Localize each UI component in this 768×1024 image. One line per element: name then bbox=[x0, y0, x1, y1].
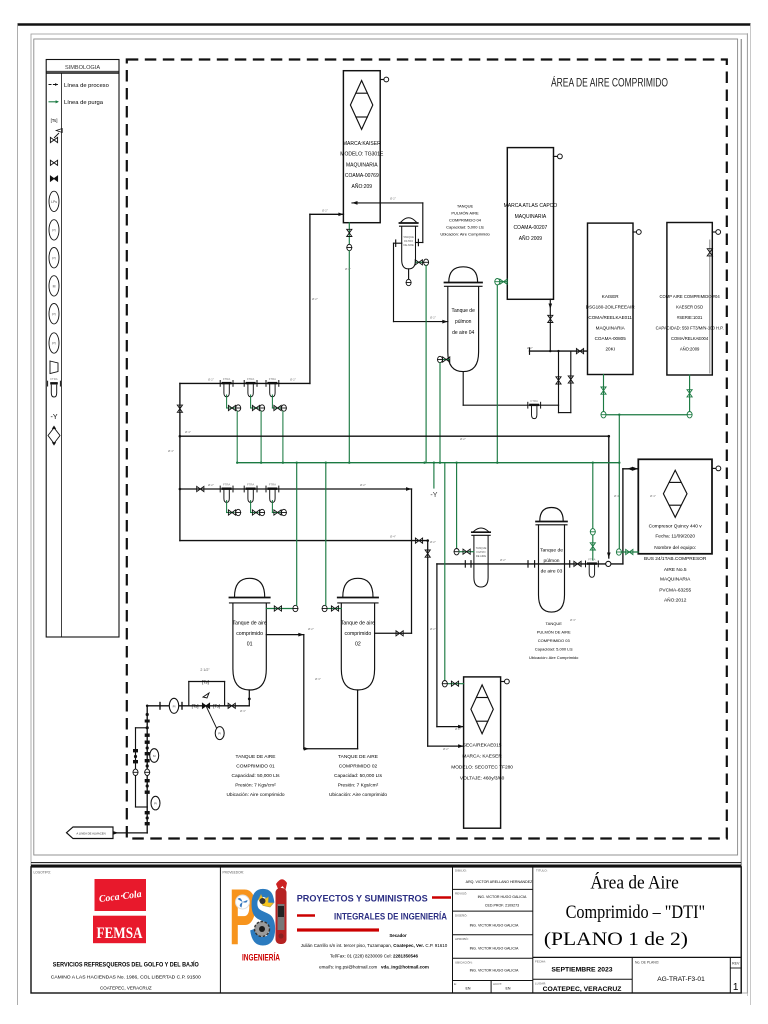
svg-text:Ubicación: Aire comprimido: Ubicación: Aire comprimido bbox=[226, 792, 284, 798]
svg-text:AÑO:2009: AÑO:2009 bbox=[680, 347, 700, 352]
process line 3 bbox=[180, 538, 429, 543]
svg-text:FILTRO: FILTRO bbox=[404, 239, 413, 243]
svg-text:MAQUINARIA: MAQUINARIA bbox=[660, 577, 691, 583]
svg-text:Ubicación: Aire Comprimido: Ubicación: Aire Comprimido bbox=[440, 232, 490, 237]
svg-text:DISEÑÓ:: DISEÑÓ: bbox=[455, 913, 468, 918]
svg-text:LUGAR:: LUGAR: bbox=[535, 981, 546, 985]
filter tank bottom drain bbox=[406, 269, 411, 286]
svg-text:MAQUINARIA: MAQUINARIA bbox=[515, 214, 547, 220]
svg-text:EN: EN bbox=[466, 987, 471, 991]
svg-text:DSG180-2OILFREEAIR: DSG180-2OILFREEAIR bbox=[586, 305, 636, 310]
svg-text:TANQUE: TANQUE bbox=[403, 235, 414, 239]
filter on tank04 outlet bbox=[528, 399, 541, 419]
valve below dryer bbox=[347, 223, 352, 244]
svg-text:-Y: -Y bbox=[51, 414, 58, 421]
svg-text:ING. VICTOR HUGO GALICIA: ING. VICTOR HUGO GALICIA bbox=[470, 924, 519, 928]
svg-text:AG-TRAT-F3-01: AG-TRAT-F3-01 bbox=[657, 976, 705, 983]
svg-text:TITULO:: TITULO: bbox=[536, 869, 548, 873]
svg-text:ARQ. VICTOR ARELLANO HERNANDEZ: ARQ. VICTOR ARELLANO HERNANDEZ bbox=[466, 880, 533, 884]
svg-text:Capacidad: 5,000 Lts: Capacidad: 5,000 Lts bbox=[446, 225, 484, 230]
svg-text:VOLTAJE: 460y/3/60: VOLTAJE: 460y/3/60 bbox=[460, 776, 505, 782]
svg-text:CAMINO A LAS HACIENDAS No. 198: CAMINO A LAS HACIENDAS No. 1986, COL LIB… bbox=[51, 975, 202, 980]
PSI logo bbox=[229, 872, 287, 963]
svg-text:Ø 4": Ø 4" bbox=[390, 535, 396, 539]
svg-text:COMA/RELKAE004: COMA/RELKAE004 bbox=[671, 336, 709, 341]
compresor ATLAS COPCO box bbox=[504, 148, 558, 300]
nozzle kaiser dsg bbox=[633, 230, 641, 235]
svg-text:PI: PI bbox=[173, 704, 176, 708]
tank 02 bbox=[338, 578, 378, 690]
quincy purge bbox=[616, 549, 638, 555]
svg-text:Ø 4": Ø 4" bbox=[185, 430, 191, 434]
svg-text:UBICACIÓN:: UBICACIÓN: bbox=[455, 960, 473, 965]
svg-text:ACOT:: ACOT: bbox=[493, 982, 502, 986]
left riser bbox=[177, 383, 182, 540]
tanque pulmon de aire 04 bbox=[445, 267, 483, 372]
svg-text:TANQUE DE AIRE: TANQUE DE AIRE bbox=[236, 754, 276, 760]
svg-text:TANQUE: TANQUE bbox=[457, 204, 474, 209]
svg-text:FEMSA: FEMSA bbox=[97, 925, 144, 942]
svg-text:Ø 2": Ø 2" bbox=[208, 483, 214, 487]
svg-text:-Y: -Y bbox=[430, 492, 437, 499]
tank04 bottom outlet bbox=[463, 372, 558, 406]
svg-text:COATEPEC, VERACRUZ: COATEPEC, VERACRUZ bbox=[100, 986, 152, 991]
svg-text:20KI: 20KI bbox=[605, 347, 614, 352]
tanque 04 text block bbox=[440, 204, 490, 237]
nozzle secador bbox=[501, 679, 510, 684]
svg-text:COAMA-00769: COAMA-00769 bbox=[345, 173, 379, 179]
svg-text:MARCA:KAISER: MARCA:KAISER bbox=[343, 141, 381, 147]
svg-text:PI: PI bbox=[52, 342, 55, 346]
line1 drop to suction bbox=[607, 435, 611, 558]
svg-text:Ubicación: Aire Comprimido: Ubicación: Aire Comprimido bbox=[529, 655, 579, 660]
svg-text:púlmon: púlmon bbox=[543, 558, 559, 564]
wire outlet right to filter tank bbox=[352, 201, 423, 246]
legend symbols column bbox=[48, 118, 63, 446]
svg-text:Capacidad: 50,000 Lts: Capacidad: 50,000 Lts bbox=[334, 773, 383, 779]
svg-text:Tanque de: Tanque de bbox=[540, 548, 563, 554]
svg-text:KAISER: KAISER bbox=[602, 294, 620, 299]
atlas outlet down bbox=[548, 299, 553, 351]
svg-text:Julián Carrillo s/n int. terce: Julián Carrillo s/n int. tercer piso, Tu… bbox=[301, 943, 448, 948]
svg-text:MODELO: SECOTEC TF280: MODELO: SECOTEC TF280 bbox=[451, 765, 513, 771]
svg-text:PROYECTOS Y SUMINISTROS: PROYECTOS Y SUMINISTROS bbox=[297, 893, 428, 904]
svg-text:Área de Aire: Área de Aire bbox=[590, 871, 678, 893]
svg-text:ING. VICTOR HUGO GALICIA: ING. VICTOR HUGO GALICIA bbox=[470, 969, 519, 973]
svg-text:LPs: LPs bbox=[51, 200, 57, 204]
svg-text:Presión: 7 Kgs/cm²: Presión: 7 Kgs/cm² bbox=[235, 783, 276, 789]
svg-text:Ø 2": Ø 2" bbox=[312, 297, 318, 301]
svg-text:Ø 3": Ø 3" bbox=[570, 618, 576, 622]
svg-text:COAMA-00207: COAMA-00207 bbox=[513, 225, 547, 231]
svg-text:Ø 3": Ø 3" bbox=[315, 677, 321, 681]
svg-text:púlmon: púlmon bbox=[455, 319, 472, 325]
svg-text:S: S bbox=[249, 872, 277, 962]
svg-text:Ø 2": Ø 2" bbox=[460, 437, 466, 441]
SECADOR box bbox=[451, 677, 513, 828]
svg-text:Línea de proceso: Línea de proceso bbox=[64, 83, 109, 89]
svg-text:email's: ing.psi@hotmail.com: email's: ing.psi@hotmail.com vda_ing@hot… bbox=[319, 965, 429, 970]
names column bbox=[453, 869, 534, 994]
filter tank purge valve bbox=[415, 259, 428, 265]
svg-text:comprimido: comprimido bbox=[344, 631, 371, 637]
svg-text:E:: E: bbox=[454, 982, 457, 986]
svg-text:Ø 2": Ø 2" bbox=[500, 558, 506, 562]
svg-text:KAESER DSD: KAESER DSD bbox=[676, 305, 703, 310]
svg-text:REV: REV bbox=[732, 962, 740, 966]
svg-text:1: 1 bbox=[733, 982, 739, 993]
svg-text:Ø 4": Ø 4" bbox=[614, 494, 620, 498]
svg-text:MAQUINARIA: MAQUINARIA bbox=[596, 326, 626, 331]
tank02 text block bbox=[329, 754, 387, 798]
svg-text:de aire 04: de aire 04 bbox=[452, 330, 474, 336]
svg-text:AIRE No.5: AIRE No.5 bbox=[664, 567, 687, 573]
tanque 03 text block bbox=[529, 621, 579, 660]
svg-text:TANQUE: TANQUE bbox=[476, 546, 487, 550]
svg-text:Ø 2": Ø 2" bbox=[308, 627, 314, 631]
svg-text:ÁREA DE AIRE COMPRIMIDO: ÁREA DE AIRE COMPRIMIDO bbox=[551, 75, 668, 90]
svg-text:INTEGRALES DE INGENIERÍA: INTEGRALES DE INGENIERÍA bbox=[334, 911, 447, 922]
svg-text:INGENIERÍA: INGENIERÍA bbox=[242, 953, 280, 963]
svg-text:COAMA-00805: COAMA-00805 bbox=[595, 336, 627, 341]
svg-text:AÑO:2012: AÑO:2012 bbox=[664, 597, 687, 604]
svg-text:Presión: 7 Kgs/cm²: Presión: 7 Kgs/cm² bbox=[338, 783, 379, 789]
header to kaiser comp bbox=[530, 348, 588, 354]
tank02 purge inlet bbox=[322, 463, 341, 612]
purge drop from filter tank bbox=[425, 266, 427, 463]
purge -Y drop bbox=[430, 463, 437, 499]
secador purge inlet bbox=[442, 681, 463, 687]
svg-text:MARCA ATLAS CAPCO: MARCA ATLAS CAPCO bbox=[504, 203, 558, 209]
filter row 1 bbox=[180, 382, 310, 384]
svg-text:Capacidad: 5,000 Lts: Capacidad: 5,000 Lts bbox=[535, 647, 573, 652]
svg-text:FILTRO: FILTRO bbox=[476, 550, 485, 554]
kaeser dsd purge bbox=[687, 375, 692, 418]
svg-text:PULMÓN DE AIRE: PULMÓN DE AIRE bbox=[537, 630, 571, 635]
svg-text:MAQUINARIA: MAQUINARIA bbox=[346, 162, 378, 168]
svg-text:EN: EN bbox=[506, 987, 511, 991]
connection nozzle U1 bbox=[380, 77, 388, 82]
linea de purga bbox=[49, 101, 59, 103]
wire riser to filter row 1 bbox=[309, 214, 311, 383]
svg-text:Ø 2": Ø 2" bbox=[360, 483, 366, 487]
svg-text:Tel/Fax: 01 (228) 8230009 Cel:: Tel/Fax: 01 (228) 8230009 Cel: 228135054… bbox=[330, 954, 419, 959]
nozzle kaeser dsd bbox=[712, 230, 720, 235]
svg-text:Ø 2": Ø 2" bbox=[430, 627, 436, 631]
riser from tank04 line bbox=[556, 350, 561, 405]
svg-text:No. DE PLANO:: No. DE PLANO: bbox=[635, 961, 659, 965]
svg-text:CAPACIDAD: 550 FT3/M/N-100 H.P: CAPACIDAD: 550 FT3/M/N-100 H.P. bbox=[656, 326, 724, 331]
row2 filter drains bbox=[227, 501, 241, 516]
svg-text:PI: PI bbox=[52, 312, 55, 316]
svg-text:Tanque de aire: Tanque de aire bbox=[341, 621, 375, 627]
tank02 outlet bbox=[375, 489, 412, 636]
svg-text:COMPRIMIDO 01: COMPRIMIDO 01 bbox=[236, 764, 275, 770]
svg-text:01: 01 bbox=[247, 642, 253, 648]
valve right of dsd box bbox=[707, 240, 712, 373]
drain circle below dryer bbox=[347, 244, 352, 250]
svg-text:Ø 4": Ø 4" bbox=[650, 494, 656, 498]
compresor QUINCY box bbox=[638, 459, 712, 603]
tank01 text block bbox=[226, 754, 284, 798]
kaiser dsg purge bbox=[601, 375, 606, 418]
pipe size labels bbox=[168, 197, 656, 752]
svg-text:Ø 2": Ø 2" bbox=[527, 346, 533, 350]
svg-text:M: M bbox=[53, 285, 56, 289]
wire inlet left bbox=[310, 213, 344, 217]
left gauge manifold bbox=[133, 706, 160, 833]
tanque pulmon de aire 03 bbox=[536, 508, 567, 613]
svg-text:PI: PI bbox=[52, 256, 55, 260]
filtro02 purge bbox=[454, 463, 474, 555]
PSI cell bbox=[223, 871, 452, 970]
atlas purge bbox=[495, 279, 508, 463]
tank01 outlet bbox=[266, 633, 304, 749]
svg-text:Ø 4": Ø 4" bbox=[168, 449, 174, 453]
svg-text:Ø 2": Ø 2" bbox=[455, 727, 461, 731]
tanque filtro de aire 02 bbox=[472, 528, 490, 587]
svg-text:Tanque de aire: Tanque de aire bbox=[232, 621, 266, 627]
svg-text:CED.PROF. 2109273: CED.PROF. 2109273 bbox=[485, 904, 519, 908]
purge drop to suction filter bbox=[590, 463, 595, 560]
svg-text:Ø 2": Ø 2" bbox=[322, 209, 328, 213]
svg-text:Ø 2": Ø 2" bbox=[208, 378, 214, 382]
svg-text:TANQUE: TANQUE bbox=[546, 621, 563, 626]
svg-text:A LINEA DE ALMACEN: A LINEA DE ALMACEN bbox=[76, 832, 105, 836]
row1 filter drains bbox=[227, 395, 241, 463]
svg-text:LOGOTIPO:: LOGOTIPO: bbox=[34, 871, 52, 875]
flag to storage line bbox=[67, 827, 148, 839]
svg-text:BUS 24/1TAB.COMPRESOR: BUS 24/1TAB.COMPRESOR bbox=[644, 556, 707, 562]
svg-text:TANQUE DE AIRE: TANQUE DE AIRE bbox=[338, 754, 378, 760]
svg-text:COMA/REELKAE011: COMA/REELKAE011 bbox=[588, 315, 632, 320]
svg-text:FECHA:: FECHA: bbox=[535, 960, 546, 964]
logo cell bbox=[34, 871, 202, 991]
svg-text:MARCA: KAESER: MARCA: KAESER bbox=[462, 754, 502, 760]
svg-text:Línea de purga: Línea de purga bbox=[64, 100, 104, 106]
svg-text:Ø 2": Ø 2" bbox=[430, 316, 436, 320]
bypass loop bbox=[189, 668, 225, 706]
svg-text:COMPRIMIDO 03: COMPRIMIDO 03 bbox=[538, 638, 571, 643]
tank04 purge bbox=[438, 356, 450, 462]
svg-text:SERVICIOS REFRESQUEROS DEL GOL: SERVICIOS REFRESQUEROS DEL GOLFO Y DEL B… bbox=[53, 961, 199, 969]
svg-text:SECA/REKAE015: SECA/REKAE015 bbox=[463, 743, 502, 749]
svg-text:COMPRIMIDO 04: COMPRIMIDO 04 bbox=[449, 218, 482, 223]
purge line from dryer to manifold bbox=[348, 251, 350, 463]
svg-text:SEPTIEMBRE 2023: SEPTIEMBRE 2023 bbox=[551, 967, 612, 974]
linea de proceso bbox=[49, 84, 59, 86]
svg-text:COATEPEC, VERACRUZ: COATEPEC, VERACRUZ bbox=[543, 986, 622, 993]
svg-text:2 1/2": 2 1/2" bbox=[200, 668, 210, 672]
tank01 purge inlet bbox=[266, 463, 298, 612]
tank drains bottom bbox=[248, 690, 251, 706]
svg-text:PI: PI bbox=[52, 229, 55, 233]
suction branch to secador bbox=[437, 564, 464, 729]
dryer KAESER TG301E box bbox=[340, 71, 384, 223]
svg-text:de aire 03: de aire 03 bbox=[541, 569, 563, 575]
svg-text:Ø 2": Ø 2" bbox=[290, 378, 296, 382]
second riser w valve bbox=[559, 351, 574, 413]
filter on suction line bbox=[586, 558, 599, 578]
process line 1 bbox=[179, 435, 609, 438]
filter tank left stub down to tank04 bbox=[394, 240, 448, 324]
svg-text:COMPRIMIDO 02: COMPRIMIDO 02 bbox=[339, 764, 378, 770]
svg-text:Secador: Secador bbox=[389, 933, 407, 938]
svg-text:Compresor Quincy 440 v: Compresor Quincy 440 v bbox=[649, 523, 703, 529]
svg-text:PULMÓN AIRE: PULMÓN AIRE bbox=[451, 211, 479, 216]
nozzle quincy bbox=[712, 466, 721, 471]
svg-text:ING. VICTOR HUGO GALICIA: ING. VICTOR HUGO GALICIA bbox=[470, 947, 519, 951]
svg-text:Fecha: 11/09/2020: Fecha: 11/09/2020 bbox=[655, 534, 695, 540]
svg-text:APROBÓ:: APROBÓ: bbox=[455, 936, 469, 941]
filter row 2 bbox=[179, 486, 412, 491]
svg-text:MODELO: TG301E: MODELO: TG301E bbox=[340, 152, 384, 158]
purge manifold bbox=[236, 462, 621, 464]
svg-text:Tanque de: Tanque de bbox=[452, 308, 476, 314]
svg-text:SIMBOLOGIA: SIMBOLOGIA bbox=[65, 65, 100, 71]
svg-text:COMP AIRE COMPRIMIDO #04: COMP AIRE COMPRIMIDO #04 bbox=[659, 294, 720, 299]
tanque filtro de aire 01 bbox=[400, 218, 418, 269]
tank 01 bbox=[230, 578, 270, 690]
purge sub header bbox=[606, 414, 687, 549]
svg-text:PI: PI bbox=[218, 732, 221, 736]
svg-text:Capacidad: 50,000 Lts: Capacidad: 50,000 Lts bbox=[231, 773, 280, 779]
compresor KAESER DSD box bbox=[656, 223, 724, 376]
svg-text:AÑO 2009: AÑO 2009 bbox=[519, 235, 543, 242]
suction line bbox=[437, 561, 623, 567]
svg-text:Ø 2": Ø 2" bbox=[443, 747, 449, 751]
svg-text:Comprimido – "DTI": Comprimido – "DTI" bbox=[566, 902, 706, 923]
nozzle atlas bbox=[554, 154, 563, 159]
svg-text:02: 02 bbox=[355, 642, 361, 648]
svg-text:#SERIE:1031: #SERIE:1031 bbox=[677, 315, 703, 320]
compresor KAISER DSG box bbox=[586, 223, 636, 374]
svg-text:DE AIRE: DE AIRE bbox=[476, 554, 487, 558]
svg-text:Ubicación: Aire comprimido: Ubicación: Aire comprimido bbox=[329, 792, 387, 798]
svg-text:PVCMA-63255: PVCMA-63255 bbox=[659, 588, 691, 594]
svg-text:comprimido: comprimido bbox=[236, 631, 263, 637]
purge drop to secador bbox=[444, 463, 446, 681]
svg-text:PI: PI bbox=[154, 802, 157, 806]
svg-text:ING. VICTOR HUGO GALICIA: ING. VICTOR HUGO GALICIA bbox=[478, 895, 527, 899]
suction riser to quincy bbox=[623, 467, 638, 564]
line3 drop to secador low inlet bbox=[425, 541, 464, 748]
feed line with control valve bbox=[146, 693, 249, 740]
svg-text:DE AIRE: DE AIRE bbox=[403, 243, 414, 247]
svg-text:AÑO:209: AÑO:209 bbox=[352, 183, 373, 190]
svg-text:Nombre del equipo:: Nombre del equipo: bbox=[654, 545, 696, 551]
title cell bbox=[536, 869, 705, 951]
svg-text:REVISÓ:: REVISÓ: bbox=[455, 891, 467, 896]
svg-text:(PLANO 1 de 2): (PLANO 1 de 2) bbox=[544, 929, 688, 950]
svg-text:Ø 2": Ø 2" bbox=[390, 197, 396, 201]
svg-text:Ø 2": Ø 2" bbox=[345, 267, 351, 271]
svg-text:Ø 2": Ø 2" bbox=[430, 540, 436, 544]
svg-text:Ø 3": Ø 3" bbox=[240, 709, 246, 713]
svg-text:DIBUJO:: DIBUJO: bbox=[455, 869, 467, 873]
